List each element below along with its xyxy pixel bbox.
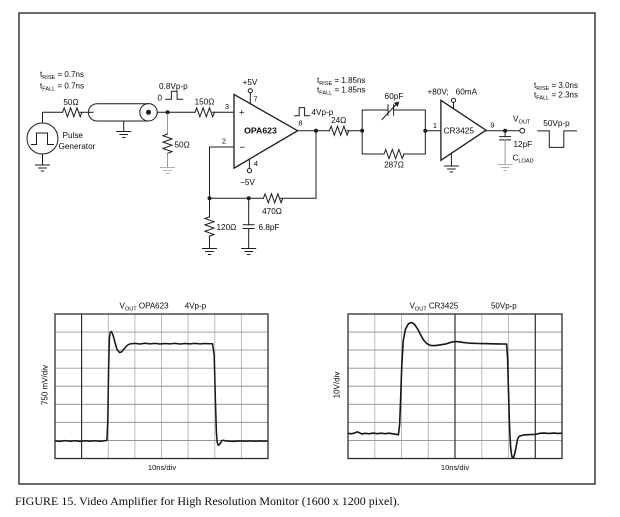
wire: RC network frame (362, 110, 425, 154)
op-amp U1 OPA623 (234, 94, 298, 168)
node: output load junction (503, 129, 507, 133)
svg-text:4: 4 (254, 159, 258, 168)
svg-text:287Ω: 287Ω (384, 161, 404, 170)
svg-text:9: 9 (490, 121, 494, 130)
label: tRISE/tFALL 3.0ns 2.3ns (534, 81, 578, 101)
terminal VOUT (open circle) (520, 128, 525, 133)
scope plot right (CR3425 output) (333, 302, 563, 473)
svg-text:Generator: Generator (59, 142, 96, 151)
svg-text:12pF: 12pF (514, 140, 533, 149)
+80V supply (428, 88, 478, 109)
wire: output node down to feedback (315, 131, 317, 199)
ground (coax shield) (117, 121, 131, 138)
svg-text:+5V: +5V (243, 78, 258, 87)
label: tRISE/tFALL 0.7ns (40, 70, 84, 92)
svg-text:CR3425: CR3425 (444, 126, 475, 136)
svg-text:24Ω: 24Ω (331, 116, 346, 125)
ground (CLOAD) (498, 165, 512, 171)
node: RC network left (360, 129, 364, 133)
svg-text:−: − (240, 143, 246, 154)
label: Pulse Generator (59, 131, 96, 151)
svg-text:+: + (239, 108, 245, 119)
svg-text:10ns/div: 10ns/div (441, 463, 469, 472)
wire: CR3425 output to terminal (486, 130, 520, 132)
label: 4Vp-p pulse waveform (295, 108, 334, 117)
ground (CR3425) (444, 153, 458, 172)
resistor 24ohm (329, 126, 348, 135)
trace: OPA623 pulse response (56, 332, 268, 446)
wire: coax to input node (157, 111, 195, 113)
svg-text:470Ω: 470Ω (262, 207, 282, 216)
svg-text:−5V: −5V (240, 178, 255, 187)
svg-text:0.8Vp-p: 0.8Vp-p (159, 82, 188, 91)
wire: 150ohm to op-amp pin 3 (212, 111, 234, 113)
svg-text:10V/div: 10V/div (333, 372, 342, 399)
resistor 120ohm (to ground) (205, 198, 214, 248)
resistor R 50ohm (series) (63, 108, 82, 117)
svg-text:6.8pF: 6.8pF (259, 223, 280, 232)
svg-text:8: 8 (298, 119, 302, 128)
capacitor 6.8pF (243, 198, 254, 248)
feedback wire (210, 197, 317, 199)
capacitor 12pF CLOAD (500, 131, 511, 165)
ground (6.8pF) (242, 249, 256, 255)
svg-text:7: 7 (253, 95, 257, 104)
wire: pin 2 to feedback node (210, 147, 235, 198)
svg-text:Pulse: Pulse (63, 131, 84, 140)
node: feedback left junction (208, 196, 212, 200)
label: 50Vp-p inverted pulse waveform (538, 119, 577, 147)
wire: RC network to CR3425 pin 1 (425, 130, 441, 132)
svg-text:1: 1 (433, 121, 437, 130)
svg-text:2: 2 (222, 137, 226, 146)
+5V supply (pin 7) (243, 78, 258, 104)
label: 0.8Vp-p with 0 pulse waveform (158, 82, 189, 103)
resistor 470ohm (feedback) (263, 194, 282, 203)
svg-text:50Ω: 50Ω (63, 98, 78, 107)
svg-text:+80V; 60mA: +80V; 60mA (428, 88, 478, 97)
label: tRISE/tFALL 1.85ns (317, 76, 365, 96)
wire: generator to 50ohm resistor (43, 112, 63, 123)
wire: resistor to coax (80, 111, 93, 113)
svg-text:3: 3 (225, 102, 229, 111)
amplifier U2 CR3425 (441, 100, 486, 160)
svg-text:750 mV/div: 750 mV/div (41, 365, 50, 405)
svg-text:0: 0 (158, 94, 163, 103)
svg-text:FIGURE 15. Video Amplifier for: FIGURE 15. Video Amplifier for High Reso… (15, 494, 400, 508)
svg-text:50Vp-p: 50Vp-p (543, 119, 570, 128)
svg-text:OPA623: OPA623 (244, 126, 277, 136)
pulse generator source (27, 123, 58, 154)
node: RC network right (423, 129, 427, 133)
coax cable (88, 104, 157, 121)
trace: CR3425 pulse response (349, 323, 562, 458)
scope plot left (OPA623 output) (41, 302, 269, 473)
-5V supply (pin 4) (240, 159, 258, 187)
ground (pulse generator) (36, 154, 50, 171)
ground (shunt 50ohm) (161, 168, 175, 174)
ground (120ohm) (203, 249, 217, 255)
node: input (junction dot) (166, 110, 170, 114)
svg-text:60pF: 60pF (385, 92, 404, 101)
node: output junction (314, 129, 318, 133)
resistor 50ohm (shunt to ground) (163, 114, 172, 167)
wire: op-amp output to 24ohm (298, 130, 330, 132)
node: feedback cap junction (247, 196, 251, 200)
svg-text:120Ω: 120Ω (217, 223, 237, 232)
svg-text:10ns/div: 10ns/div (148, 463, 176, 472)
resistor 150ohm (195, 108, 214, 117)
svg-text:50Ω: 50Ω (175, 141, 190, 150)
svg-text:150Ω: 150Ω (195, 98, 215, 107)
capacitor 60pF variable (382, 102, 399, 120)
resistor 287ohm (384, 150, 404, 159)
wire: 24ohm to RC network (347, 130, 362, 132)
